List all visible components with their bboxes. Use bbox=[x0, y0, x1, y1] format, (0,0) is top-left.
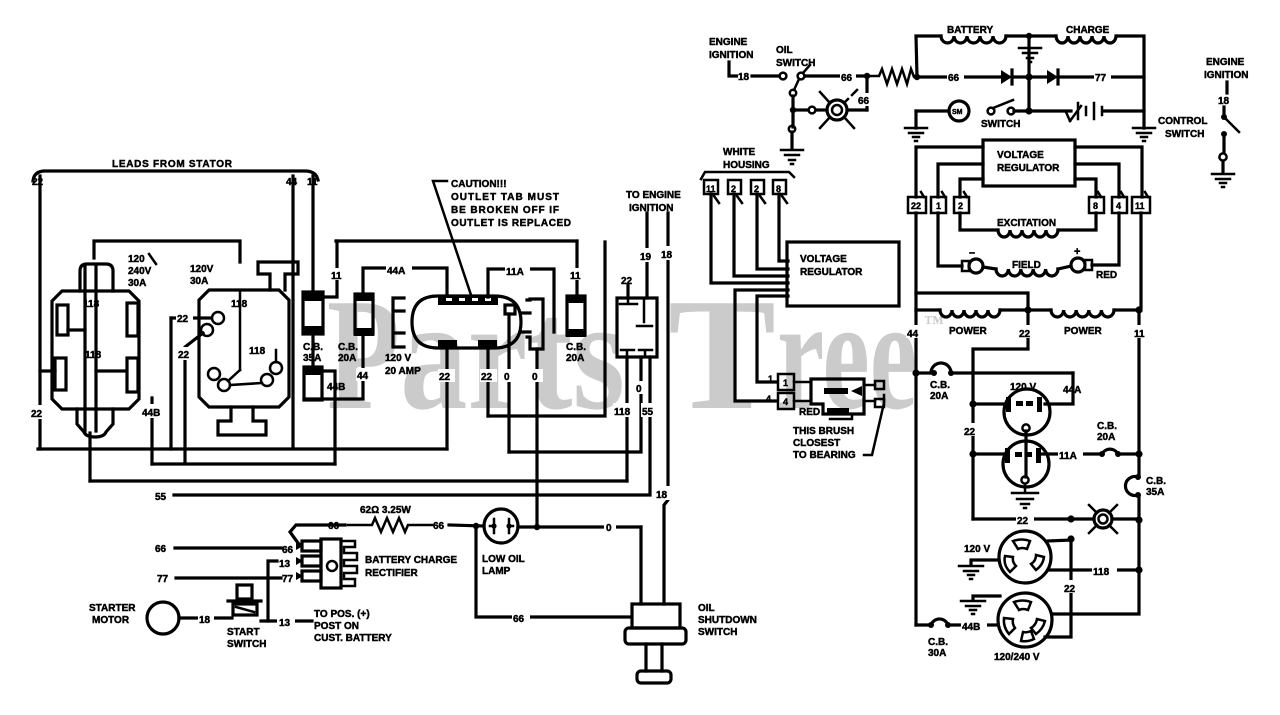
wire top of receptacles bbox=[94, 241, 240, 262]
wire 13 bbox=[268, 561, 277, 621]
ground bbox=[905, 128, 927, 141]
svg-text:MOTOR: MOTOR bbox=[92, 615, 130, 626]
wire 22 drop left bbox=[445, 348, 448, 449]
svg-text:118: 118 bbox=[83, 299, 100, 310]
terminal 2 bbox=[728, 180, 742, 203]
svg-text:22: 22 bbox=[1017, 516, 1029, 527]
svg-text:4: 4 bbox=[766, 394, 771, 404]
wire 22-0 link bbox=[488, 242, 605, 416]
svg-text:SWITCH: SWITCH bbox=[698, 627, 737, 638]
switch bbox=[988, 108, 995, 115]
node 22 bbox=[963, 423, 980, 436]
outlet 120V duplex upper bbox=[1004, 389, 1050, 435]
wire 44A drop bbox=[1045, 373, 1073, 404]
svg-text:C.B.: C.B. bbox=[566, 342, 586, 353]
svg-text:20A: 20A bbox=[1097, 432, 1115, 443]
svg-text:11A: 11A bbox=[1059, 451, 1077, 462]
svg-text:OIL: OIL bbox=[698, 603, 715, 614]
svg-text:OIL: OIL bbox=[776, 45, 793, 56]
wire 22 terminal down bbox=[916, 213, 1028, 310]
wire 44A riser bbox=[363, 268, 447, 297]
wire top bus bbox=[336, 239, 577, 242]
wire stub to receptacle1 bbox=[40, 369, 55, 372]
field brush left bbox=[938, 213, 962, 266]
svg-text:18: 18 bbox=[656, 490, 668, 501]
svg-text:11A: 11A bbox=[506, 267, 524, 278]
svg-text:120 V: 120 V bbox=[1010, 382, 1036, 393]
terminal 4 bbox=[1112, 192, 1127, 213]
svg-text:CONTROL: CONTROL bbox=[1158, 116, 1207, 127]
svg-text:0: 0 bbox=[636, 384, 642, 395]
circuit breaker C.B. 35A right bbox=[1137, 454, 1140, 474]
start switch bbox=[228, 585, 261, 615]
terminal 11 bbox=[1132, 192, 1150, 213]
wire 44B to bus bbox=[322, 371, 335, 464]
svg-text:LEADS FROM STATOR: LEADS FROM STATOR bbox=[112, 159, 233, 170]
svg-text:30A: 30A bbox=[190, 276, 208, 287]
svg-text:1: 1 bbox=[768, 374, 773, 384]
wire 77 row bbox=[176, 576, 281, 579]
battery coil bbox=[941, 36, 1006, 43]
outlet 120V twistlock bbox=[999, 531, 1051, 583]
svg-text:SWITCH: SWITCH bbox=[981, 119, 1020, 130]
svg-text:REGULATOR: REGULATOR bbox=[997, 163, 1060, 174]
voltage regulator box bbox=[787, 242, 899, 306]
wire charge to 77 drop bbox=[1117, 36, 1144, 128]
svg-text:66: 66 bbox=[948, 73, 960, 84]
node 11A bbox=[505, 264, 530, 276]
svg-text:118: 118 bbox=[85, 350, 102, 361]
svg-text:66: 66 bbox=[433, 521, 445, 532]
right mounting bracket bbox=[521, 299, 543, 349]
svg-text:44A: 44A bbox=[1063, 385, 1081, 396]
svg-text:120: 120 bbox=[128, 254, 145, 265]
ground at battery bbox=[1019, 36, 1041, 62]
svg-text:BE BROKEN OFF IF: BE BROKEN OFF IF bbox=[451, 205, 559, 216]
watermark PartsTree bbox=[327, 265, 944, 443]
receptacle 120V 30A bbox=[199, 262, 298, 435]
wire to oil switch bbox=[752, 74, 779, 77]
main 66/77 row bbox=[920, 75, 1001, 78]
svg-text:T: T bbox=[668, 265, 776, 443]
receptacle 120/240V 30A bbox=[52, 264, 139, 437]
node 118 bbox=[613, 403, 638, 417]
svg-text:CUST. BATTERY: CUST. BATTERY bbox=[314, 633, 392, 644]
circuit breaker C.B. 35A bbox=[302, 291, 324, 335]
svg-text:35A: 35A bbox=[1146, 487, 1164, 498]
node 66 bbox=[857, 93, 874, 106]
wire 0 drop 2 bbox=[535, 349, 538, 527]
wire lamp to oil switch bbox=[518, 525, 641, 528]
wire 55 from relay bbox=[174, 357, 650, 495]
svg-text:22: 22 bbox=[32, 177, 44, 188]
svg-text:TO ENGINE: TO ENGINE bbox=[626, 190, 681, 201]
svg-text:4: 4 bbox=[783, 397, 788, 407]
wire coil to junction bbox=[1006, 34, 1056, 37]
svg-text:77: 77 bbox=[1095, 73, 1107, 84]
node 11 bbox=[331, 268, 345, 280]
wire 66 row bbox=[175, 546, 281, 549]
node 22 lower-left bbox=[29, 405, 48, 419]
wire 44 main left vertical bbox=[914, 293, 917, 625]
wire 11A to breaker bbox=[1039, 452, 1100, 455]
svg-text:–: – bbox=[969, 247, 975, 259]
svg-text:TO POS. (+): TO POS. (+) bbox=[314, 609, 370, 620]
svg-text:VOLTAGE: VOLTAGE bbox=[800, 254, 847, 265]
wire 44B to outlet bbox=[950, 623, 998, 626]
svg-text:SWITCH: SWITCH bbox=[227, 639, 266, 650]
diode 1 bbox=[1001, 70, 1012, 84]
svg-text:REGULATOR: REGULATOR bbox=[800, 267, 863, 278]
ground bbox=[971, 560, 999, 565]
relay box bbox=[617, 298, 657, 357]
svg-text:POWER: POWER bbox=[949, 326, 988, 337]
node 44 bbox=[356, 368, 371, 381]
svg-text:19: 19 bbox=[640, 252, 652, 263]
svg-text:118: 118 bbox=[249, 346, 266, 357]
wire into lower outlet bbox=[973, 452, 1003, 455]
wire motor to switch bbox=[179, 616, 232, 619]
wire 44 vertical bbox=[291, 176, 294, 448]
svg-text:ree: ree bbox=[777, 265, 917, 443]
svg-text:IGNITION: IGNITION bbox=[1204, 70, 1248, 81]
svg-text:22: 22 bbox=[964, 427, 976, 438]
svg-text:66: 66 bbox=[513, 614, 525, 625]
control switch symbol bbox=[1225, 82, 1228, 93]
wire 22 drop right bbox=[486, 348, 489, 416]
svg-text:22: 22 bbox=[439, 372, 451, 383]
excitation winding bbox=[998, 230, 1058, 237]
starter motor bbox=[147, 602, 179, 634]
svg-text:11: 11 bbox=[307, 177, 318, 188]
brush holder bbox=[811, 379, 884, 419]
svg-text:11: 11 bbox=[1134, 329, 1145, 340]
SM indicator bbox=[949, 101, 969, 121]
svg-text:44B: 44B bbox=[962, 622, 980, 633]
terminal 2 bbox=[751, 180, 765, 203]
svg-text:22: 22 bbox=[911, 201, 921, 211]
wire bus 22 bbox=[38, 447, 447, 450]
svg-text:55: 55 bbox=[642, 407, 654, 418]
svg-text:66: 66 bbox=[155, 544, 167, 555]
svg-text:SHUTDOWN: SHUTDOWN bbox=[698, 615, 757, 626]
wire CB35A to 44B bbox=[311, 334, 314, 367]
svg-text:1: 1 bbox=[936, 201, 941, 211]
node 11 bbox=[570, 268, 584, 280]
wire outlet to 22 node bbox=[1045, 540, 1071, 637]
outlet 120/240V twistlock bbox=[998, 593, 1052, 647]
svg-text:11: 11 bbox=[1135, 201, 1145, 211]
svg-text:2: 2 bbox=[958, 201, 963, 211]
svg-text:TO BEARING: TO BEARING bbox=[793, 450, 856, 461]
wire 44B vertical bbox=[150, 398, 153, 464]
svg-text:30A: 30A bbox=[928, 648, 946, 659]
oil switch contacts bbox=[780, 73, 787, 80]
svg-text:CHARGE: CHARGE bbox=[1066, 25, 1110, 36]
svg-text:44: 44 bbox=[357, 371, 369, 382]
svg-text:11: 11 bbox=[570, 271, 581, 282]
wire to brush 1 bbox=[757, 296, 788, 382]
svg-text:LAMP: LAMP bbox=[482, 566, 511, 577]
wire 22 to lower contact bbox=[185, 333, 203, 463]
svg-text:0: 0 bbox=[532, 372, 538, 383]
svg-text:13: 13 bbox=[279, 618, 291, 629]
svg-text:22: 22 bbox=[178, 350, 190, 361]
terminal 1 bbox=[931, 192, 946, 213]
ground bbox=[781, 150, 803, 164]
svg-text:44: 44 bbox=[286, 177, 298, 188]
wire 0 drop bbox=[507, 314, 510, 452]
wire 44 bottom jog bbox=[304, 334, 363, 399]
svg-text:0: 0 bbox=[606, 523, 612, 534]
svg-text:THIS BRUSH: THIS BRUSH bbox=[793, 426, 854, 437]
wire 11 terminal down bbox=[1139, 213, 1142, 310]
svg-text:1: 1 bbox=[783, 378, 788, 388]
svg-text:66: 66 bbox=[282, 545, 294, 556]
oil shutdown switch bbox=[625, 604, 686, 683]
svg-text:IGNITION: IGNITION bbox=[709, 50, 753, 61]
svg-text:22: 22 bbox=[1019, 329, 1031, 340]
svg-text:LOW OIL: LOW OIL bbox=[482, 554, 525, 565]
battery charge rectifier bbox=[302, 539, 357, 588]
svg-text:BATTERY: BATTERY bbox=[947, 25, 993, 36]
wire 118 from relay bbox=[625, 357, 628, 481]
svg-text:OUTLET TAB MUST: OUTLET TAB MUST bbox=[451, 192, 559, 203]
svg-text:OUTLET IS REPLACED: OUTLET IS REPLACED bbox=[451, 218, 571, 229]
relay contacts bbox=[620, 298, 652, 357]
svg-text:120/240 V: 120/240 V bbox=[994, 652, 1040, 663]
circuit breaker C.B. 20A bbox=[354, 293, 374, 336]
label 44 bbox=[906, 325, 923, 338]
svg-text:VOLTAGE: VOLTAGE bbox=[997, 150, 1044, 161]
circuit breaker C.B. 20A right bbox=[566, 295, 586, 337]
wire 11 vertical bbox=[311, 176, 314, 292]
svg-text:0: 0 bbox=[504, 372, 510, 383]
wire 22 winding tap bbox=[973, 310, 1028, 519]
wires to regulator bbox=[711, 194, 788, 283]
svg-text:18: 18 bbox=[738, 72, 750, 83]
svg-text:FIELD: FIELD bbox=[1012, 260, 1041, 271]
svg-text:RED: RED bbox=[1096, 270, 1117, 281]
wire between outlets / ground bbox=[1024, 431, 1027, 477]
svg-text:44B: 44B bbox=[142, 408, 160, 419]
field winding bbox=[983, 267, 996, 269]
wire brush stubs bbox=[794, 381, 811, 384]
power winding left bbox=[916, 308, 940, 311]
excitation loop bbox=[960, 213, 998, 230]
svg-text:22: 22 bbox=[31, 409, 43, 420]
svg-text:30A: 30A bbox=[128, 278, 146, 289]
resistor top bbox=[870, 69, 917, 84]
svg-text:22: 22 bbox=[481, 372, 493, 383]
terminal 8 bbox=[773, 180, 787, 203]
bottom bus 22 bbox=[973, 517, 1094, 520]
svg-text:120 V: 120 V bbox=[385, 353, 411, 364]
svg-text:66: 66 bbox=[858, 96, 870, 107]
svg-text:BATTERY CHARGE: BATTERY CHARGE bbox=[365, 555, 457, 566]
oil pressure sensor bbox=[820, 90, 857, 128]
svg-text:55: 55 bbox=[155, 492, 167, 503]
svg-text:SM: SM bbox=[952, 109, 963, 116]
left mounting bracket bbox=[393, 298, 404, 347]
wire bus 44B bbox=[152, 462, 335, 465]
circuit breaker C.B. 30A bbox=[928, 622, 934, 628]
wire 11 long vertical bbox=[1137, 310, 1140, 454]
wire 11 drop to CB20A right bbox=[575, 241, 578, 296]
wire 0 from relay bbox=[509, 357, 641, 452]
wire 18 elbow bbox=[729, 62, 737, 76]
svg-text:44A: 44A bbox=[387, 266, 405, 277]
wire 22 left vertical bbox=[38, 176, 41, 449]
svg-text:RED: RED bbox=[799, 407, 820, 418]
svg-text:66: 66 bbox=[841, 73, 853, 84]
svg-text:CLOSEST: CLOSEST bbox=[793, 438, 840, 449]
wire bus 118 bbox=[90, 479, 627, 482]
wire 118 bbox=[1048, 568, 1139, 571]
node 44A bbox=[386, 263, 412, 275]
wire 19 bbox=[645, 213, 648, 298]
svg-text:20A: 20A bbox=[930, 391, 948, 402]
terminal 8 bbox=[1089, 192, 1104, 213]
svg-text:WHITE: WHITE bbox=[723, 147, 756, 158]
leader bbox=[864, 395, 884, 455]
svg-text:20A: 20A bbox=[338, 353, 356, 364]
wire junction drop bbox=[1027, 36, 1030, 112]
field brush right bbox=[1092, 213, 1119, 265]
wire 22 to relay bbox=[626, 285, 629, 298]
svg-text:77: 77 bbox=[282, 574, 294, 585]
wires from box to terminals bbox=[916, 147, 983, 197]
wire hook to rectifier bbox=[290, 525, 345, 546]
wire 118 drop bbox=[88, 433, 91, 481]
power winding right bbox=[1028, 308, 1051, 311]
overload indicator bbox=[1089, 505, 1117, 533]
svg-text:18: 18 bbox=[199, 615, 211, 626]
svg-text:20A: 20A bbox=[566, 353, 584, 364]
svg-text:POST ON: POST ON bbox=[314, 621, 359, 632]
low oil lamp bbox=[484, 509, 518, 543]
leads from stator bracket bbox=[33, 171, 318, 181]
svg-text:120V: 120V bbox=[190, 264, 214, 275]
ground right bbox=[1133, 128, 1155, 141]
svg-text:POWER: POWER bbox=[1064, 326, 1103, 337]
outlet 120V duplex lower bbox=[1003, 441, 1049, 487]
svg-text:20 AMP: 20 AMP bbox=[385, 366, 421, 377]
terminal 2 bbox=[954, 192, 969, 213]
svg-text:EXCITATION: EXCITATION bbox=[997, 218, 1056, 229]
svg-text:22: 22 bbox=[1064, 584, 1076, 595]
wire to lamp bbox=[449, 525, 484, 526]
wire 22 to upper contact bbox=[171, 316, 210, 319]
svg-text:C.B.: C.B. bbox=[338, 342, 358, 353]
wire 66 lamp bottom bbox=[476, 529, 631, 617]
wire 0 drop to switch bbox=[639, 527, 642, 604]
wire to battery coil bbox=[916, 36, 941, 77]
duplex outlet 120V 20AMP bbox=[412, 296, 521, 348]
wire 13 to battery post bbox=[261, 619, 312, 622]
wire into outlet left bbox=[973, 402, 1004, 405]
svg-text:4: 4 bbox=[1116, 201, 1121, 211]
ground bbox=[1212, 174, 1234, 187]
svg-text:ENGINE: ENGINE bbox=[709, 37, 748, 48]
leader line bbox=[433, 181, 471, 295]
svg-text:240V: 240V bbox=[128, 266, 152, 277]
svg-text:C.B.: C.B. bbox=[1097, 421, 1117, 432]
svg-text:SWITCH: SWITCH bbox=[1165, 129, 1204, 140]
wire to brush 4 bbox=[735, 290, 788, 401]
svg-text:C.B.: C.B. bbox=[1146, 476, 1166, 487]
svg-text:13: 13 bbox=[279, 559, 291, 570]
control battery cells bbox=[1078, 103, 1102, 119]
svg-text:77: 77 bbox=[157, 574, 169, 585]
svg-text:118: 118 bbox=[614, 407, 631, 418]
wire junction down to sensor bbox=[865, 76, 868, 110]
svg-text:118: 118 bbox=[231, 299, 248, 310]
ground top bbox=[973, 596, 1000, 600]
svg-text:62Ω 3.25W: 62Ω 3.25W bbox=[360, 505, 411, 516]
wire switch to junction bbox=[805, 74, 863, 77]
svg-text:C.B.: C.B. bbox=[928, 637, 948, 648]
terminal 22 bbox=[908, 192, 926, 213]
svg-text:22: 22 bbox=[177, 314, 189, 325]
circuit breaker C.B. 20A outlet bbox=[1099, 451, 1105, 457]
svg-text:44: 44 bbox=[907, 329, 919, 340]
voltage regulator box right bbox=[983, 140, 1075, 186]
svg-text:+: + bbox=[1074, 246, 1080, 258]
diode 2 bbox=[1047, 70, 1058, 84]
svg-text:ENGINE: ENGINE bbox=[1206, 57, 1245, 68]
wire 11A riser bbox=[488, 269, 554, 332]
svg-text:22: 22 bbox=[621, 276, 633, 287]
svg-text:18: 18 bbox=[1218, 96, 1230, 107]
svg-text:CAUTION!!!: CAUTION!!! bbox=[451, 179, 507, 190]
circuit breaker C.B. 20A power bbox=[912, 369, 919, 376]
svg-text:C.B.: C.B. bbox=[930, 380, 950, 391]
svg-text:18: 18 bbox=[661, 250, 673, 261]
svg-text:120 V: 120 V bbox=[964, 544, 990, 555]
wire 11 jog to top bus bbox=[323, 241, 337, 297]
svg-text:HOUSING: HOUSING bbox=[723, 160, 770, 171]
svg-text:11: 11 bbox=[331, 271, 342, 282]
svg-text:RECTIFIER: RECTIFIER bbox=[365, 568, 419, 579]
charge coil bbox=[1056, 36, 1116, 43]
svg-text:8: 8 bbox=[1093, 201, 1098, 211]
wire 11 corner to outlet4 bbox=[1052, 570, 1139, 614]
svg-text:STARTER: STARTER bbox=[89, 603, 136, 614]
svg-text:START: START bbox=[227, 627, 260, 638]
terminal 11 bbox=[704, 180, 719, 203]
svg-text:118: 118 bbox=[1093, 567, 1110, 578]
connector bracket bbox=[701, 172, 794, 179]
wire 18 long bbox=[664, 213, 668, 604]
fuse link 44B bbox=[303, 366, 323, 400]
